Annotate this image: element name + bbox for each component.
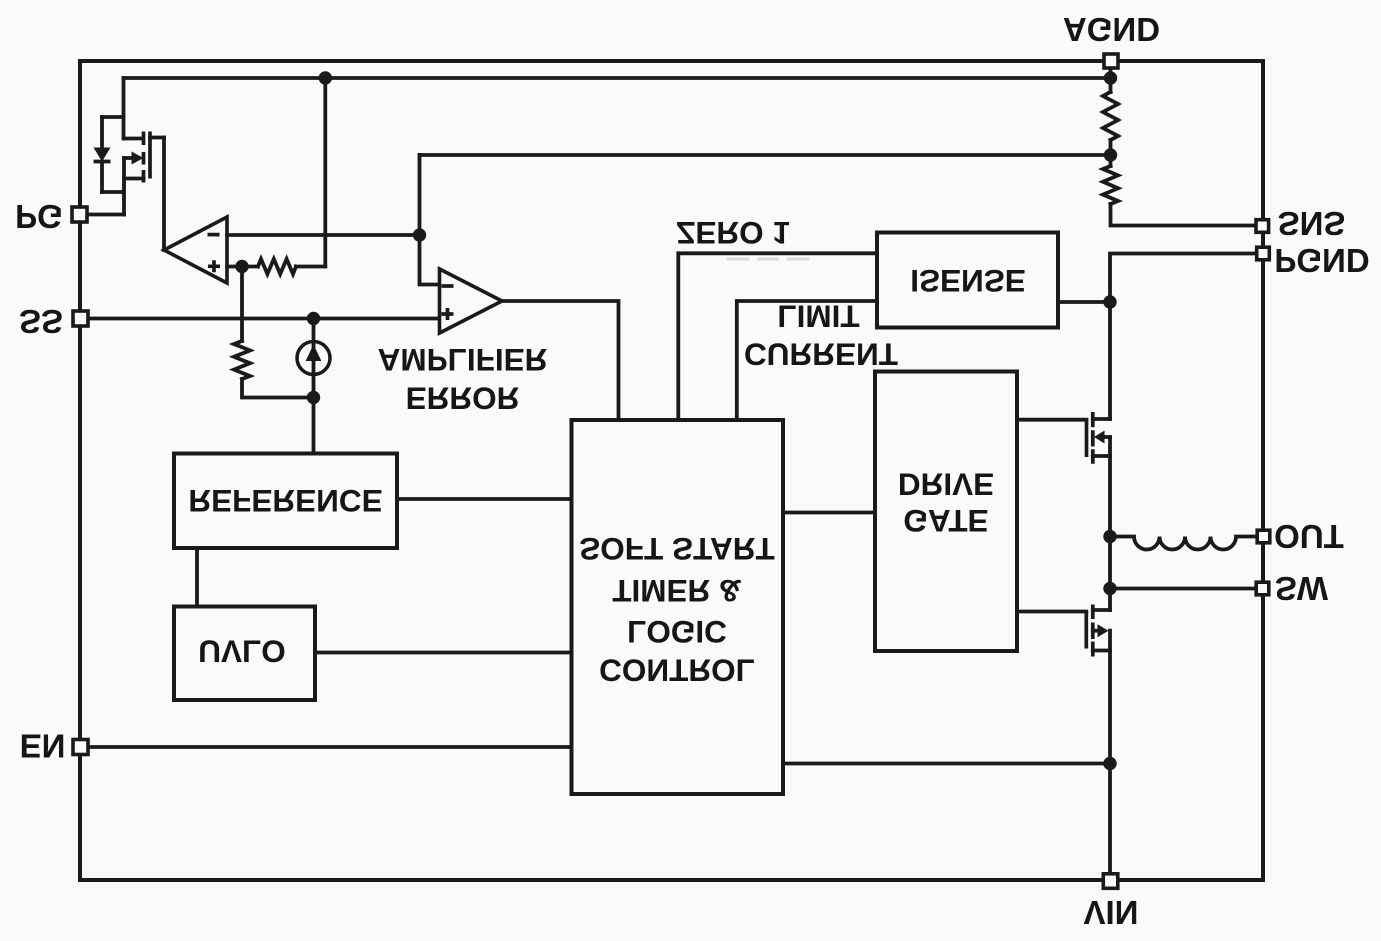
pin EN — [73, 740, 88, 755]
node top net junction — [319, 71, 332, 84]
wire CURRENT LIMIT — [737, 301, 877, 420]
wire Q1 drain drop — [122, 78, 126, 139]
pin AGND — [1104, 54, 1118, 68]
node ISENSE junction — [1103, 295, 1116, 308]
wire R2 bottom leg — [242, 379, 314, 398]
svg-text:SOFT START: SOFT START — [579, 531, 774, 567]
node R2 current source tie — [307, 391, 320, 404]
svg-text:TIMER &: TIMER & — [612, 573, 742, 609]
svg-text:CURRENT: CURRENT — [744, 336, 898, 372]
wire PGND lead — [1110, 254, 1257, 303]
wire top inner net — [124, 76, 1111, 80]
svg-text:LOGIC: LOGIC — [627, 614, 727, 650]
wire SNS lead — [1111, 204, 1257, 226]
svg-text:ERROR: ERROR — [406, 380, 520, 416]
svg-text:UVLO: UVLO — [198, 633, 286, 669]
wire reference to control — [397, 497, 572, 501]
wire control to VIN rail — [783, 762, 1110, 766]
wire right power rail middle — [1108, 437, 1112, 610]
svg-text:CONTROL: CONTROL — [599, 652, 755, 688]
pin VIN — [1103, 874, 1118, 889]
pin SS — [73, 311, 88, 326]
pin PG — [72, 207, 87, 222]
svg-text:SNS: SNS — [1278, 205, 1346, 242]
resistor R3 divider top — [1103, 92, 1118, 140]
node SS tap — [307, 312, 320, 325]
svg-text:VIN: VIN — [1083, 894, 1138, 931]
wire to reference block — [312, 398, 316, 454]
node SW junction — [1103, 582, 1116, 595]
wire ISENSE output — [1058, 300, 1110, 304]
diode D1 — [94, 117, 111, 192]
svg-text:GATE: GATE — [903, 503, 988, 539]
pin SNS — [1256, 220, 1269, 233]
wire Q1 bottom tie — [102, 192, 124, 215]
resistor R1 feedback — [242, 259, 325, 274]
node AGND top junction — [1104, 71, 1117, 84]
svg-text:PGND: PGND — [1274, 242, 1369, 279]
node A diode top tie — [102, 115, 124, 119]
label CONTROL LOGIC TIMER SOFT START — [579, 531, 774, 689]
svg-text:ISENSE: ISENSE — [910, 263, 1026, 299]
block CONTROL LOGIC TIMER &amp; SOFT START — [572, 420, 784, 794]
pin OUT — [1257, 530, 1270, 543]
svg-text:REFERENCE: REFERENCE — [188, 483, 382, 519]
transistor Q2 — [1017, 412, 1110, 464]
wire uvlo to control — [315, 651, 572, 655]
node U1 minus junction — [413, 228, 426, 241]
svg-text:SW: SW — [1275, 570, 1329, 607]
wire U1 minus input — [227, 233, 420, 237]
wire right power rail lower — [1108, 631, 1112, 880]
wire ZERO I — [678, 253, 877, 420]
node OUT junction — [1103, 530, 1116, 543]
scan artifact ghost line — [727, 258, 812, 261]
wire AGND pin drop — [1109, 61, 1113, 92]
wire Q1 gate to comparator output — [162, 138, 166, 251]
block UVLO — [174, 607, 315, 701]
node U1 plus — [235, 260, 248, 273]
node divider mid junction — [1104, 148, 1117, 161]
block GATE DRIVE — [875, 372, 1017, 652]
svg-text:DRIVE: DRIVE — [898, 466, 994, 502]
current source I1 — [297, 318, 330, 398]
wire SW lead — [1110, 587, 1257, 591]
op-amp U2 error amplifier — [440, 269, 503, 333]
wire U1 minus vertical — [420, 155, 440, 285]
svg-text:OUT: OUT — [1274, 518, 1344, 555]
wire reference to uvlo — [195, 548, 199, 607]
wire U2 output — [502, 301, 619, 420]
wire right power rail upper — [1108, 302, 1112, 419]
wire EN net — [88, 745, 572, 749]
wire SS net — [88, 317, 440, 321]
svg-text:LIMIT: LIMIT — [777, 298, 859, 334]
wire control to gate drive — [783, 511, 875, 515]
wire U1 plus input — [227, 265, 242, 269]
wire PG lead — [87, 213, 125, 217]
svg-text:EN: EN — [20, 728, 66, 765]
pin SW — [1256, 582, 1269, 595]
wire divider sense net — [420, 153, 1111, 157]
svg-text:AMPLIFIER: AMPLIFIER — [378, 342, 548, 378]
wire divider mid — [1109, 140, 1113, 166]
block ISENSE — [877, 233, 1058, 328]
resistor R2 soft-start — [234, 341, 250, 379]
svg-text:AGND: AGND — [1063, 11, 1160, 48]
wire U1 plus down — [240, 267, 244, 342]
svg-text:SS: SS — [19, 303, 63, 340]
wire R1 to top net — [323, 78, 327, 267]
block REFERENCE — [174, 454, 397, 549]
transistor Q3 — [1017, 605, 1110, 657]
transistor Q1 — [124, 132, 165, 193]
svg-text:PG: PG — [15, 198, 63, 235]
border frame of IC — [80, 61, 1263, 880]
op-amp U1 comparator — [164, 217, 227, 283]
inductor L1 — [1110, 537, 1257, 550]
resistor R4 divider bottom — [1103, 166, 1118, 204]
node VIN junction — [1103, 757, 1116, 770]
pin PGND — [1257, 247, 1270, 260]
svg-text:ZERO 1: ZERO 1 — [676, 215, 790, 251]
